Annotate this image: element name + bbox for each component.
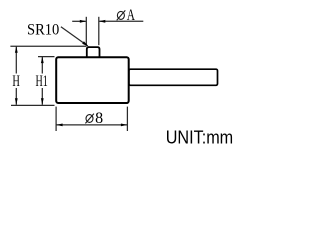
dimension line phi8: [56, 124, 127, 126]
arrow phiA right: [99, 20, 106, 23]
extension line phi8 left: [55, 107, 57, 131]
leader line SR10: [61, 27, 88, 46]
svg-text:A: A: [127, 7, 136, 24]
arrow phi8 left: [56, 124, 63, 127]
extension line phiA right: [98, 17, 100, 45]
rod on right side: [129, 69, 218, 85]
arrow H1 down: [41, 98, 44, 105]
svg-text:UNIT:mm: UNIT:mm: [166, 127, 234, 148]
extension line phi8 right: [126, 107, 128, 131]
svg-text:H: H: [12, 73, 20, 90]
arrow H up: [15, 46, 18, 53]
svg-text:SR10: SR10: [27, 22, 59, 39]
arrow H down: [15, 98, 18, 105]
dimension line H: [15, 46, 17, 73]
cylinder body outline: [56, 57, 129, 103]
extension line H top: [10, 45, 86, 47]
arrow SR10 leader: [82, 41, 89, 46]
arrow H1 up: [41, 57, 44, 64]
svg-text:H1: H1: [36, 73, 48, 90]
extension line phiA left: [85, 17, 87, 45]
svg-text:8: 8: [95, 110, 103, 127]
dimension line H1: [41, 57, 43, 74]
extension line H/H1 bottom: [11, 104, 55, 106]
arrow phi8 right: [121, 124, 128, 127]
arrow phiA left: [80, 20, 87, 23]
label phiA symbol: [117, 10, 126, 20]
dimension line phiA right segment with arrow: [99, 20, 143, 22]
boss SR10 on top of body: [87, 47, 100, 57]
label phi8 symbol: [85, 114, 94, 124]
extension line H1 top: [38, 56, 55, 58]
dimension line phiA left segment with arrow: [72, 20, 86, 22]
